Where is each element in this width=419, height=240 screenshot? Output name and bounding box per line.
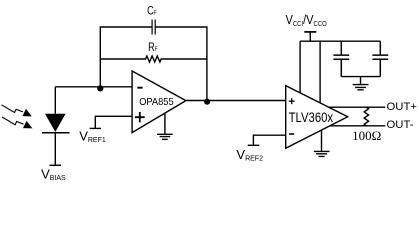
svg-text:VCCI/VCCO: VCCI/VCCO (286, 12, 327, 28)
svg-text:100Ω: 100Ω (352, 128, 381, 143)
svg-text:OPA855: OPA855 (139, 97, 173, 108)
svg-text:OUT+: OUT+ (387, 101, 418, 113)
svg-text:TLV360x: TLV360x (289, 110, 334, 125)
svg-text:VREF1: VREF1 (79, 128, 106, 144)
svg-text:CF: CF (147, 4, 157, 18)
svg-text:OUT-: OUT- (387, 119, 414, 131)
svg-text:RF: RF (148, 41, 158, 55)
svg-text:VREF2: VREF2 (236, 147, 263, 163)
svg-text:VBIAS: VBIAS (41, 166, 66, 182)
